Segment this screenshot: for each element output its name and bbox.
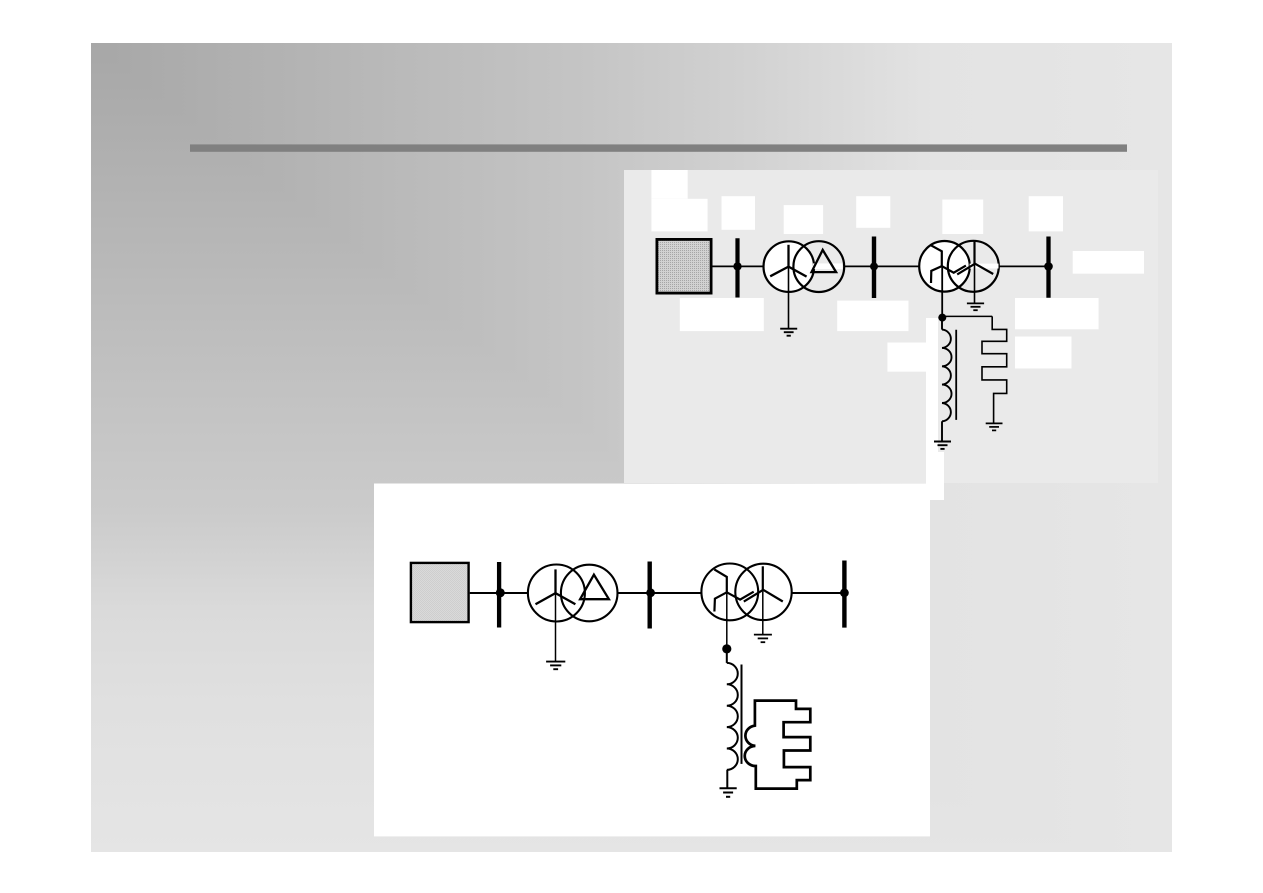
node on busbar A3 bbox=[1044, 262, 1053, 271]
node on busbar A2 bbox=[870, 262, 878, 270]
resistor R1 (meander) bbox=[982, 316, 1007, 423]
T2 wye winding symbol bbox=[957, 241, 993, 274]
white label box 2 bbox=[651, 199, 707, 232]
wire busbar A1 to transformer T1 bbox=[738, 265, 764, 267]
T2 zigzag neutral wire down bbox=[941, 266, 943, 315]
white mask band inside T2 secondary bbox=[970, 264, 999, 269]
transformer T3 secondary circle (delta) bbox=[561, 565, 618, 622]
T4 wye winding symbol bbox=[744, 566, 783, 601]
busbar B1 bbox=[497, 562, 501, 628]
transformer T2 secondary circle (wye) bbox=[948, 241, 999, 292]
T2 ground symbol bbox=[967, 302, 984, 304]
L1 core bar bbox=[955, 330, 957, 420]
white panel (lower diagram background) bbox=[374, 484, 930, 837]
T1 wye winding symbol bbox=[770, 245, 806, 277]
wire T2 to busbar A3 bbox=[999, 265, 1047, 267]
white label box 15 bbox=[926, 452, 944, 500]
white label box 7 bbox=[1029, 196, 1063, 231]
white mask band inside T1 secondary bbox=[813, 263, 842, 269]
white label box 11 bbox=[1015, 298, 1099, 329]
white label box 12 bbox=[887, 343, 928, 372]
wire L2 to ground bbox=[726, 770, 728, 788]
generator block G2 (hatched square) bbox=[411, 563, 469, 622]
secondary winding and resistor R2 loop bbox=[745, 701, 811, 789]
T3 ground symbol bbox=[546, 661, 565, 663]
white label box 13 bbox=[1015, 337, 1072, 369]
wire busbar B2 to transformer T4 bbox=[650, 592, 702, 594]
light gray diagram box (upper) bbox=[624, 170, 1158, 483]
generator block G1 (hatched square) bbox=[657, 239, 711, 293]
busbar B2 bbox=[648, 562, 652, 629]
busbar A2 bbox=[872, 237, 876, 299]
wire busbar B1 to transformer T3 bbox=[499, 592, 528, 594]
slide gradient background (horizontal component) bbox=[91, 43, 1172, 852]
T2 zigzag winding symbol bbox=[930, 245, 966, 283]
L2 core bar bbox=[741, 665, 743, 764]
wire T1 to busbar A2 bbox=[844, 265, 872, 267]
transformer T4 primary circle (zigzag) bbox=[701, 564, 758, 621]
neutral node N1 bbox=[938, 314, 946, 322]
busbar A3 bbox=[1046, 237, 1050, 298]
node on busbar B3 bbox=[840, 588, 849, 597]
white label box 1 bbox=[651, 170, 687, 199]
white label box 10 bbox=[837, 301, 908, 332]
T3 wye winding symbol bbox=[536, 569, 576, 604]
title underline bar bbox=[190, 144, 1127, 151]
wire node N1 to resistor R1 bbox=[944, 315, 992, 317]
wire T4 to busbar B3 bbox=[792, 592, 843, 594]
wire G2 to busbar B1 bbox=[470, 592, 498, 594]
node on busbar B1 bbox=[496, 588, 505, 597]
arc-suppression coil L2 bbox=[727, 663, 738, 770]
T1 delta winding symbol bbox=[812, 250, 837, 272]
T2 wye neutral wire to ground bbox=[974, 264, 976, 303]
ground of coil L2 bbox=[720, 787, 737, 789]
transformer T2 primary circle (zigzag) bbox=[919, 241, 970, 292]
T4 wye neutral wire to ground bbox=[762, 592, 764, 635]
white label box 8 bbox=[1073, 251, 1144, 274]
white label box 6 bbox=[942, 200, 983, 235]
transformer T1 primary circle (wye) bbox=[764, 241, 815, 292]
wire L1 to ground bbox=[941, 421, 943, 441]
transformer T4 secondary circle (wye) bbox=[735, 564, 791, 620]
ground of coil L1 bbox=[934, 441, 951, 443]
node on busbar B2 bbox=[646, 588, 655, 597]
busbar B3 bbox=[842, 561, 846, 628]
white label box 9 bbox=[680, 298, 764, 331]
arc-suppression coil L1 bbox=[942, 330, 952, 422]
node on busbar A1 bbox=[733, 262, 741, 270]
wire G1 to busbar A1 bbox=[713, 265, 736, 267]
T4 zigzag neutral wire down bbox=[726, 592, 728, 645]
T1 ground symbol bbox=[780, 328, 797, 330]
busbar A1 bbox=[735, 238, 739, 297]
T3 neutral wire to ground bbox=[555, 593, 557, 661]
white label box 5 bbox=[856, 196, 890, 228]
wire T3 to busbar B2 bbox=[617, 592, 647, 594]
ground of resistor R1 bbox=[986, 422, 1003, 424]
transformer T3 primary circle (wye) bbox=[528, 565, 585, 622]
wire busbar A2 to transformer T2 bbox=[874, 265, 920, 267]
T4 ground symbol bbox=[754, 634, 772, 636]
neutral node N2 bbox=[722, 644, 731, 653]
transformer T1 secondary circle (delta) bbox=[793, 241, 844, 292]
white label box 3 bbox=[722, 196, 756, 230]
T1 neutral wire to ground bbox=[788, 267, 790, 329]
white label box 14 bbox=[926, 318, 938, 483]
white label box 4 bbox=[784, 205, 823, 234]
wire node N2 to arc-suppression coil L2 bbox=[726, 652, 728, 663]
wire node N1 to arc-suppression coil L1 bbox=[941, 319, 943, 330]
T4 zigzag winding symbol bbox=[714, 569, 753, 611]
slide gradient background (vertical component, max-blended) bbox=[91, 43, 1172, 852]
T3 delta winding symbol bbox=[580, 575, 609, 600]
